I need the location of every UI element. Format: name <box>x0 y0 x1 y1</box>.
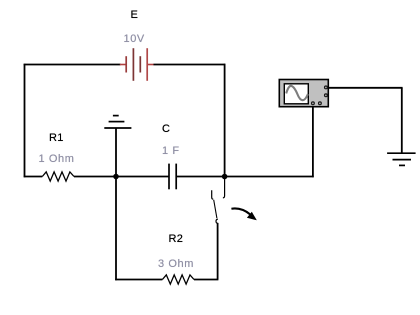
ground right mid bar <box>393 159 412 161</box>
wire right vertical to junction <box>224 64 226 177</box>
battery E plate short mid <box>139 56 141 72</box>
label C <box>162 123 170 135</box>
wire scope right horizontal <box>328 87 402 89</box>
oscilloscope U1 body <box>279 80 328 107</box>
capacitor C plate left <box>168 164 170 190</box>
oscilloscope sine trace <box>286 86 308 100</box>
wire left vertical <box>24 64 26 178</box>
arrow switch throw direction <box>231 208 250 214</box>
node junction left dot <box>113 174 119 180</box>
wire bottom-left vertical <box>115 177 117 281</box>
ground right short bar <box>399 164 405 166</box>
value 10V <box>124 33 145 45</box>
battery E plate long right <box>146 48 148 81</box>
wire switch to R2 vertical <box>217 223 219 280</box>
label R2 <box>169 233 184 245</box>
oscilloscope terminal bottom 1 <box>312 102 315 105</box>
capacitor C plate right <box>175 164 177 190</box>
ground left short bar <box>113 115 119 117</box>
value 1 F <box>162 145 180 157</box>
node junction right dot <box>222 174 228 180</box>
ground left mid bar <box>109 121 125 123</box>
label E <box>131 9 139 21</box>
switch blade <box>214 200 217 218</box>
wire right far vertical <box>401 88 403 153</box>
battery E plate short left <box>125 56 127 72</box>
wire capacitor to scope-drop <box>176 176 314 178</box>
oscilloscope terminal right B <box>325 94 328 97</box>
value 3 Ohm <box>158 258 194 270</box>
battery E lead left (red) <box>120 64 126 66</box>
ground left vertical stem <box>115 128 117 177</box>
oscilloscope terminal right A <box>325 86 328 89</box>
ground left long bar <box>104 127 131 129</box>
oscilloscope screen <box>284 84 308 104</box>
value 1 Ohm <box>39 153 75 165</box>
wire top-left horizontal <box>25 63 121 66</box>
battery E plate long mid <box>132 48 134 81</box>
wire bottom right horizontal <box>194 279 218 281</box>
ground right long bar <box>387 152 416 154</box>
wire top-right horizontal <box>154 64 226 66</box>
oscilloscope terminal bottom 2 <box>319 102 322 105</box>
switch left contact <box>212 190 214 199</box>
wire R1 to capacitor <box>74 176 169 178</box>
wire scope bottom vertical <box>312 107 314 178</box>
switch top contact <box>223 177 225 198</box>
switch bottom hook <box>216 219 218 223</box>
resistor R1 zigzag <box>42 172 74 181</box>
wire R1 row left <box>24 176 43 178</box>
resistor R2 zigzag <box>162 275 194 284</box>
wire bottom left horizontal <box>115 279 162 281</box>
battery E lead right (red) <box>148 64 154 66</box>
label R1 <box>49 132 64 144</box>
